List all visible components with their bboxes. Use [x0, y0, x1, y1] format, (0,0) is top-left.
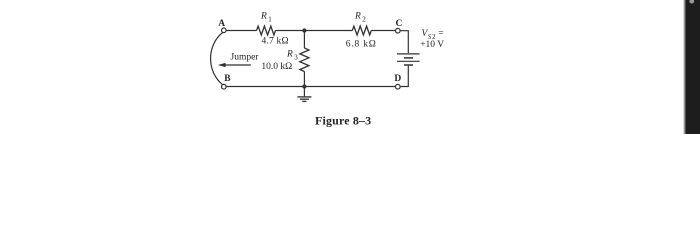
resistor R3	[300, 48, 309, 72]
svg-text:10.0 kΩ: 10.0 kΩ	[261, 62, 292, 72]
wire R1 to top junction	[276, 30, 305, 32]
svg-text:4.7 kΩ: 4.7 kΩ	[262, 37, 289, 47]
svg-text:=: =	[438, 29, 443, 39]
svg-text:D: D	[394, 74, 401, 84]
ground symbol	[297, 97, 311, 102]
jumper arrow head	[218, 63, 226, 67]
svg-text:+10 V: +10 V	[420, 40, 444, 50]
svg-text:C: C	[396, 19, 403, 29]
junction dot top	[302, 28, 306, 32]
resistor R1	[257, 26, 276, 35]
node A terminal circle	[222, 28, 227, 33]
svg-text:R: R	[260, 12, 267, 22]
svg-text:B: B	[224, 74, 231, 84]
svg-text:2: 2	[362, 16, 366, 24]
svg-text:1: 1	[268, 16, 272, 24]
svg-text:Jumper: Jumper	[231, 53, 260, 63]
svg-text:6.8 kΩ: 6.8 kΩ	[346, 39, 377, 49]
jumper wire arc A to B	[211, 32, 223, 84]
scanned page dark right edge band	[686, 0, 700, 134]
wire bottom junction to node B	[226, 86, 304, 88]
ground stub	[303, 87, 305, 97]
node C terminal circle	[396, 28, 401, 33]
junction dot bottom	[302, 84, 306, 88]
svg-text:R: R	[286, 50, 293, 60]
R3 top lead	[303, 31, 305, 49]
wire battery bottom to node D	[400, 65, 408, 87]
jumper arrow line	[225, 64, 251, 66]
svg-text:R: R	[354, 12, 361, 22]
wire A to R1	[226, 30, 256, 32]
gray speck on dark band	[689, 0, 694, 4]
svg-text:A: A	[218, 19, 225, 29]
battery VS2 plates	[397, 54, 420, 65]
wire R2 to node C	[371, 30, 395, 32]
resistor R2	[352, 26, 371, 35]
wire top junction to R2	[304, 30, 352, 32]
node D terminal circle	[396, 84, 401, 89]
svg-text:Figure 8–3: Figure 8–3	[315, 114, 371, 128]
R3 bottom lead	[303, 72, 305, 87]
node B terminal circle	[222, 84, 227, 89]
svg-text:3: 3	[294, 54, 298, 62]
wire node D to bottom junction	[304, 86, 395, 88]
wire node C to battery top	[400, 31, 408, 53]
